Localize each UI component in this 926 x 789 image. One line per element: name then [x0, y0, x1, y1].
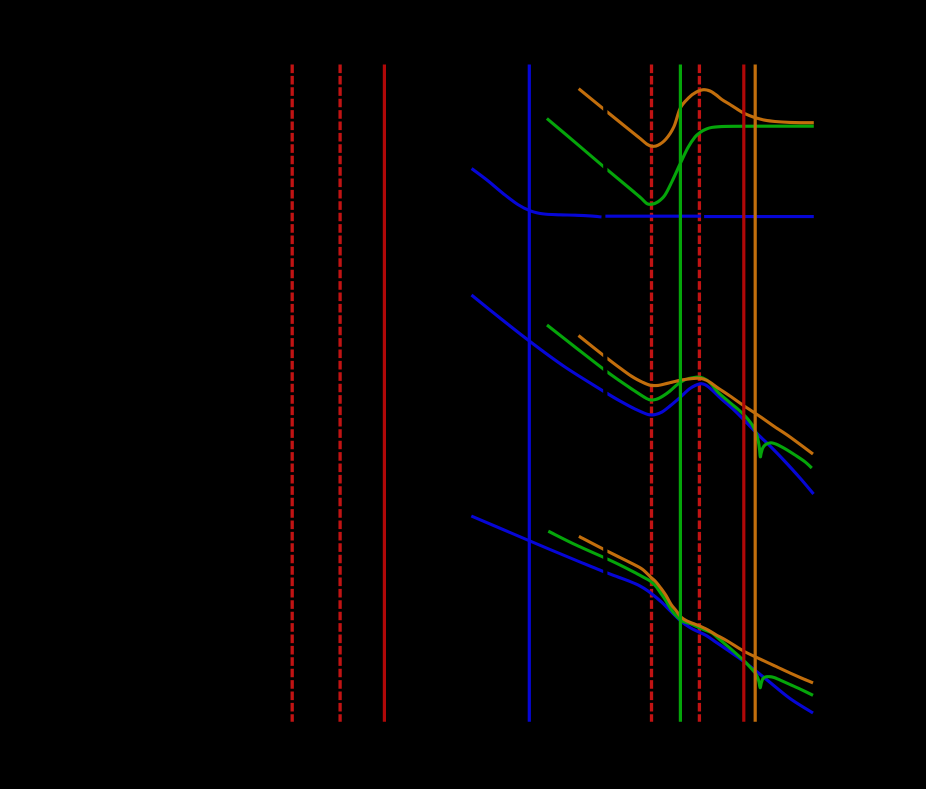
middle band blue curve [472, 295, 814, 494]
bottom band green curve with notch [548, 531, 813, 695]
dash gap slit across curves [603, 65, 607, 721]
vertical solid green marker line [679, 65, 682, 722]
top band green curve (dip and rise to flat) [547, 119, 814, 205]
bottom band orange curve [579, 536, 813, 683]
vertical dashed red marker line 2 (left) [338, 65, 341, 722]
vertical solid blue marker line [528, 65, 531, 722]
vertical dashed red marker line 1 (left) [291, 65, 294, 722]
middle band green curve with notch [547, 325, 812, 468]
vertical solid dark red marker line (right) [742, 65, 745, 722]
top band blue curve (decay to flat asymptote) [472, 169, 602, 218]
vertical solid orange marker line [754, 65, 757, 722]
top band orange curve (dip and resonance peak) [579, 89, 814, 147]
middle band orange curve [579, 336, 814, 455]
vertical dashed red marker line 4 [698, 65, 701, 722]
top band blue flat asymptote segment b [704, 215, 814, 218]
vertical solid dark red marker line (left) [383, 65, 386, 722]
top band blue flat asymptote segment a [605, 215, 701, 218]
vertical dashed red marker line 3 [650, 65, 653, 722]
bottom band blue curve [471, 516, 813, 713]
